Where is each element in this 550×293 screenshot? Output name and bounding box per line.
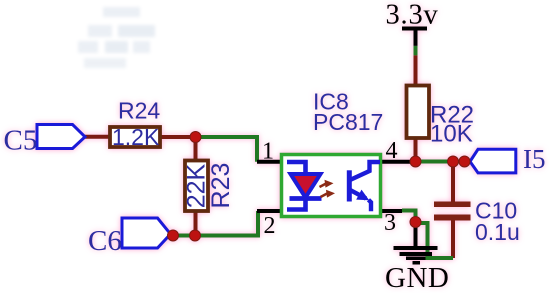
svg-text:1.2K: 1.2K bbox=[112, 124, 160, 150]
transistor Q1 base bar bbox=[347, 170, 352, 201]
node B junction 1 bbox=[168, 230, 179, 241]
node D junction 2 bbox=[459, 156, 470, 167]
wire R24 to node A bbox=[160, 135, 196, 139]
node A junction bbox=[190, 132, 201, 143]
svg-text:C5: C5 bbox=[4, 125, 38, 157]
svg-text:10K: 10K bbox=[430, 121, 473, 148]
svg-text:R24: R24 bbox=[118, 98, 160, 124]
LED cathode wiring bbox=[287, 199, 306, 210]
wire R23 bottom to node B bbox=[194, 211, 198, 236]
light arrow 1 bbox=[320, 180, 334, 188]
svg-text:I5: I5 bbox=[523, 144, 546, 174]
connector I5 bbox=[470, 149, 516, 173]
wire node E to C10 bottom bbox=[416, 223, 454, 258]
wire 3.3v to R22 bbox=[414, 29, 418, 46]
node D junction 1 bbox=[448, 156, 459, 167]
svg-text:3.3v: 3.3v bbox=[386, 0, 439, 31]
wire C10 to ground run bbox=[451, 221, 455, 259]
connector C5 bbox=[37, 125, 85, 149]
wire C5 to R24 bbox=[85, 135, 110, 139]
LED anode wiring bbox=[287, 162, 306, 175]
svg-text:1: 1 bbox=[262, 139, 274, 165]
wire node D to C10 bbox=[451, 162, 455, 202]
svg-text:GND: GND bbox=[385, 262, 449, 293]
pin 2 stub bbox=[257, 209, 289, 213]
resistor R22 bbox=[407, 86, 430, 139]
node C junction bbox=[410, 156, 421, 167]
svg-text:C6: C6 bbox=[88, 225, 122, 257]
wire node A to R23 top bbox=[194, 137, 198, 160]
wire C6 to node B bbox=[171, 234, 195, 238]
transistor collector bbox=[351, 162, 381, 180]
light arrow 2 bbox=[321, 190, 336, 198]
resistor R24 bbox=[110, 127, 160, 147]
transistor emitter to pin 3 bbox=[369, 200, 372, 212]
capacitor C10 top plate bbox=[434, 202, 471, 208]
svg-text:R23: R23 bbox=[207, 163, 235, 209]
node B junction 2 bbox=[190, 230, 201, 241]
ground symbol bbox=[394, 222, 438, 265]
connector C6 bbox=[122, 218, 171, 248]
svg-text:0.1u: 0.1u bbox=[475, 219, 520, 245]
LED cathode bar bbox=[290, 196, 322, 201]
svg-text:PC817: PC817 bbox=[313, 109, 383, 135]
node E junction bbox=[410, 217, 421, 228]
optocoupler U IC8 box bbox=[282, 155, 381, 217]
LED D1 triangle bbox=[291, 174, 321, 198]
transistor emitter bbox=[351, 190, 367, 198]
pin 3 stub bbox=[372, 209, 402, 213]
wire node B to pin 2 bbox=[195, 211, 258, 236]
transistor emitter arrowhead bbox=[356, 190, 369, 201]
wire node C to I5 bbox=[416, 160, 467, 164]
wire pin 3 to node E bbox=[402, 211, 416, 223]
svg-text:2: 2 bbox=[264, 213, 276, 239]
wire node A to pin 1 bbox=[196, 137, 258, 162]
resistor R23 bbox=[185, 161, 208, 212]
wire R22 to node C bbox=[414, 138, 418, 162]
capacitor C10 bottom plate bbox=[434, 215, 471, 221]
power symbol 3.3v bar bbox=[402, 27, 427, 31]
svg-text:4: 4 bbox=[386, 138, 398, 164]
svg-text:3: 3 bbox=[384, 210, 396, 236]
pin 1 stub bbox=[257, 160, 289, 164]
pin 4 stub bbox=[379, 160, 412, 164]
